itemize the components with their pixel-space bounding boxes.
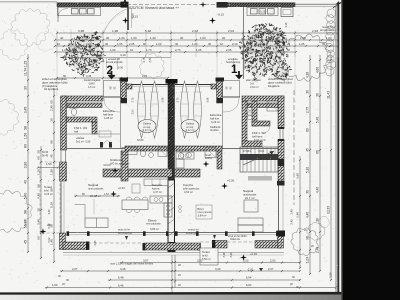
west terrace outline [40, 162, 60, 233]
svg-text:2,93: 2,93 [312, 29, 318, 33]
svg-text:árnyékolásk.: árnyékolásk. [320, 28, 335, 32]
bottom dim row 2 [60, 270, 300, 272]
bottom scan edge thick line [0, 292, 342, 295]
left fixtures [69, 103, 78, 108]
svg-text:4,18: 4,18 [284, 22, 288, 28]
svg-text:30: 30 [175, 42, 179, 46]
svg-text:2,10 m²: 2,10 m² [250, 85, 259, 89]
stair lower step strip [248, 176, 272, 181]
svg-text:1,00: 1,00 [200, 36, 206, 40]
svg-text:4,10: 4,10 [85, 48, 91, 52]
svg-text:60: 60 [37, 156, 41, 160]
svg-text:90: 90 [262, 48, 266, 52]
svg-text:hall: hall [74, 129, 79, 133]
svg-text:98: 98 [24, 210, 28, 214]
post end block [86, 242, 89, 250]
survey star bottom-left [40, 228, 47, 235]
svg-text:nem padozás: nem padozás [88, 187, 104, 191]
svg-text:66 60: 66 60 [42, 151, 49, 154]
svg-text:3,45: 3,45 [265, 29, 271, 33]
svg-text:2,05: 2,05 [129, 42, 135, 46]
svg-text:ellet vagjawt: ellet vagjawt [246, 78, 261, 82]
survey star mid right [203, 161, 210, 168]
interior line left unit [67, 148, 169, 150]
svg-text:2,03: 2,03 [192, 29, 198, 33]
tree top-left small scallop [36, 31, 56, 51]
svg-text:4,40: 4,40 [306, 212, 310, 218]
svg-text:1,50: 1,50 [52, 283, 58, 287]
svg-text:Konyha: Konyha [183, 183, 193, 187]
right bath left wall [242, 101, 247, 146]
entry recess outline left [104, 81, 121, 98]
hedge along right boundary [327, 9, 335, 18]
tree bottom-left [0, 190, 32, 232]
svg-text:3,60: 3,60 [296, 173, 300, 179]
carport left posts [72, 9, 79, 14]
svg-text:30: 30 [50, 118, 54, 122]
svg-text:9,12 m²: 9,12 m² [186, 128, 195, 132]
svg-text:6,94: 6,94 [246, 276, 252, 280]
svg-text:2,75: 2,75 [306, 107, 310, 113]
carport left door swing [58, 9, 68, 19]
svg-text:1,15: 1,15 [24, 61, 28, 68]
right unit bath bottom wall [175, 169, 201, 177]
right sofa group [238, 218, 263, 225]
svg-text:3,84 m²: 3,84 m² [198, 213, 207, 217]
svg-text:45: 45 [24, 240, 28, 244]
walkway to left entry [106, 58, 108, 70]
right unit east wall upper [278, 96, 284, 128]
svg-text:Konyha: Konyha [152, 183, 162, 187]
svg-text:60: 60 [50, 100, 54, 104]
svg-text:1,98: 1,98 [112, 29, 118, 33]
svg-text:3,86 m²: 3,86 m² [150, 227, 159, 231]
party wall lower hollow [168, 180, 175, 248]
dense tree left of entry [68, 39, 101, 72]
svg-text:2,60: 2,60 [142, 74, 148, 78]
left unit west wall upper [61, 96, 67, 150]
right unit entry side wall [217, 80, 223, 103]
svg-text:0-8: 0-8 [250, 81, 254, 85]
svg-text:födkö-líte: födkö-líte [230, 238, 241, 241]
corner tick top-right [333, 0, 344, 8]
svg-text:60: 60 [24, 144, 28, 148]
stair hall top stub right [211, 84, 217, 89]
carport left outline [58, 7, 101, 15]
svg-text:2,75: 2,75 [177, 97, 180, 102]
svg-text:-0,15: -0,15 [217, 13, 224, 17]
svg-text:hall-lane: hall-lane [103, 112, 114, 116]
svg-text:4,28 m²: 4,28 m² [104, 116, 113, 120]
svg-text:5,40: 5,40 [24, 193, 28, 200]
dimension row A [57, 32, 338, 34]
survey star mid left living [110, 191, 117, 198]
driveway arc left [104, 9, 127, 32]
svg-text:4,60: 4,60 [316, 67, 320, 73]
svg-text:4,29 m²: 4,29 m² [211, 120, 220, 124]
svg-text:10,33: 10,33 [327, 206, 331, 214]
east wall mid dark block [278, 159, 285, 166]
survey star mid left kitchen [112, 167, 118, 173]
vertical dim chain left mid [40, 146, 42, 258]
south glazing line both units [67, 232, 279, 234]
svg-text:98: 98 [24, 126, 28, 130]
gate post line down [127, 7, 129, 30]
svg-text:4,37 m²: 4,37 m² [153, 190, 162, 194]
svg-text:2,75: 2,75 [132, 97, 135, 102]
entrance arrow left [108, 71, 116, 80]
bottom dim row 4 [45, 287, 336, 289]
tree top-left large scallop [11, 8, 50, 46]
terrace bottom wall right b [255, 241, 281, 249]
svg-text:1,03: 1,03 [326, 36, 332, 40]
svg-text:2,03: 2,03 [243, 258, 249, 262]
vertical chain right 2 [319, 55, 321, 271]
svg-text:Galéria: Galéria [143, 122, 152, 126]
svg-text:40: 40 [60, 36, 64, 40]
neighbour plot line top-left [0, 1, 57, 3]
stair arrow [243, 151, 274, 165]
bottom dim row 1 [120, 262, 300, 264]
svg-text:30: 30 [208, 42, 212, 46]
right dining table [244, 200, 258, 212]
gate arrow at street [122, 0, 129, 6]
svg-text:1,50: 1,50 [93, 36, 99, 40]
party wall top cap [166, 79, 178, 84]
left kitchen upper counter row [144, 179, 168, 186]
svg-text:1,50: 1,50 [46, 162, 52, 166]
left bath fixtures [122, 148, 137, 155]
svg-text:2,07: 2,07 [72, 267, 78, 271]
arrow line into site [60, 57, 171, 59]
survey star top B [209, 17, 216, 24]
survey star right living [221, 183, 228, 190]
svg-text:3,46: 3,46 [120, 267, 126, 271]
svg-text:3,48: 3,48 [296, 212, 300, 218]
svg-text:30: 30 [37, 150, 41, 154]
svg-text:60: 60 [37, 236, 41, 240]
svg-text:=3,10: =3,10 [258, 151, 265, 153]
right bath inner wall horizontal [252, 121, 270, 126]
right unit WC fixtures [247, 104, 252, 111]
svg-text:4,52 m²: 4,52 m² [184, 190, 193, 194]
svg-text:4,40: 4,40 [47, 209, 51, 215]
corner black cap top [277, 231, 286, 237]
svg-text:10: 10 [220, 42, 224, 46]
svg-text:98 40: 98 40 [42, 155, 49, 158]
svg-text:3,48: 3,48 [222, 252, 226, 258]
dense tree right unit front [244, 28, 285, 69]
svg-text:-1840: -1840 [88, 81, 95, 85]
party wall between units [168, 83, 175, 180]
right terrace label box [200, 248, 218, 265]
fence dark post block [121, 2, 129, 8]
level triangle [259, 268, 263, 271]
right black scanner strip [342, 0, 400, 300]
survey star top-right corner [336, 1, 342, 7]
right bath lower wall [242, 141, 262, 147]
entry door swing right [223, 98, 239, 112]
svg-text:kő-kertyēja: kő-kertyēja [186, 231, 199, 235]
stair label oval left [138, 120, 156, 133]
svg-text:jobb apartman: jobb apartman [182, 186, 200, 190]
svg-text:2,50: 2,50 [132, 109, 135, 114]
svg-text:17x18,4: 17x18,4 [243, 151, 252, 153]
entry wall black cap [120, 78, 129, 82]
svg-text:1,00: 1,00 [62, 48, 68, 52]
right unit top wall [242, 96, 284, 101]
svg-text:30: 30 [105, 42, 109, 46]
svg-text:30: 30 [306, 90, 310, 94]
svg-text:9,12 m²: 9,12 m² [143, 128, 152, 132]
svg-text:11,43: 11,43 [327, 91, 331, 99]
svg-text:+0,63: +0,63 [118, 186, 125, 190]
svg-text:Terasz: Terasz [202, 250, 210, 254]
west wall window section [60, 150, 62, 162]
svg-text:Nappali: Nappali [243, 189, 254, 193]
svg-text:1,50: 1,50 [50, 169, 54, 175]
svg-text:+0,02: +0,02 [250, 252, 257, 256]
vertical chain right inner [299, 156, 301, 268]
svg-text:max 1,53 m magas dél hirára ke: max 1,53 m magas dél hirára kerítés [110, 261, 154, 265]
dimension row B [55, 39, 338, 41]
right unit inner top wall bar [247, 103, 278, 108]
terrace bottom wall right a [214, 241, 227, 249]
carport right outline [247, 7, 278, 15]
plot boundary dashed between fence segments [127, 4, 217, 6]
svg-text:2,05: 2,05 [248, 36, 254, 40]
dim row above building [57, 77, 168, 79]
svg-text:köben a helyiségben: köben a helyiségben [42, 77, 67, 81]
svg-text:2,60: 2,60 [86, 42, 92, 46]
svg-text:1,05: 1,05 [196, 48, 202, 52]
east wall end cap [277, 181, 285, 186]
left unit inner top wall bar [67, 103, 102, 108]
svg-text:1,50: 1,50 [131, 36, 137, 40]
svg-text:2,05: 2,05 [300, 36, 306, 40]
svg-text:fürdőszoba: fürdőszoba [110, 158, 124, 162]
east glazing lower [277, 186, 279, 233]
svg-text:5,40: 5,40 [316, 117, 320, 123]
svg-text:1,73: 1,73 [146, 48, 152, 52]
left unit bath left wall [121, 151, 128, 181]
stair lens curves left unit [138, 81, 146, 138]
svg-text:40: 40 [24, 180, 28, 184]
svg-text:16,33: 16,33 [24, 220, 28, 228]
svg-text:1,52: 1,52 [104, 192, 110, 196]
svg-text:1,00: 1,00 [110, 48, 116, 52]
survey star top A [200, 1, 206, 7]
svg-text:2,73: 2,73 [175, 48, 181, 52]
svg-text:30: 30 [306, 190, 310, 194]
entry wall bottom black blob [121, 98, 127, 103]
left unit porch inner wall L vertical [92, 122, 97, 134]
dashed garden line bottom [88, 242, 145, 244]
right unit bath right wall [217, 151, 222, 169]
svg-text:30: 30 [222, 36, 226, 40]
right bath inner wall vertical [252, 101, 257, 126]
carport right posts [251, 9, 258, 14]
svg-text:2,48: 2,48 [316, 247, 320, 253]
svg-text:5x1 m² -2,50: 5x1 m² -2,50 [76, 139, 91, 143]
svg-text:2,03: 2,03 [270, 258, 276, 262]
stair hall top line right [175, 84, 217, 86]
left kitchen counter [150, 196, 172, 203]
svg-text:63,89: 63,89 [137, 138, 144, 142]
level mark bottom [240, 254, 247, 261]
svg-text:30: 30 [316, 93, 320, 97]
bottom-right corner wall vertical [278, 236, 284, 248]
svg-text:Galéria: Galéria [186, 122, 195, 126]
svg-text:5,01 m² b: 5,01 m² b [254, 138, 266, 142]
vertical chain right 1 [309, 55, 311, 274]
svg-text:fürdőkö: fürdőkö [210, 128, 219, 132]
entrance arrow right [235, 71, 243, 80]
svg-text:10: 10 [57, 42, 61, 46]
svg-text:4,18: 4,18 [131, 13, 135, 19]
tree bottom-right [291, 228, 318, 256]
svg-text:02 ápolásra: 02 ápolásra [44, 87, 59, 91]
left unit bath top wall [125, 146, 168, 151]
stair hall top stub left [127, 84, 133, 89]
right unit bath top wall [175, 146, 223, 151]
glazing jambs [67, 231, 70, 236]
svg-text:kádba: kádba [205, 156, 213, 160]
top dim block vertical connectors [56, 31, 58, 57]
svg-text:2,10: 2,10 [232, 42, 238, 46]
left unit top porch wall [63, 96, 104, 101]
svg-text:3,40: 3,40 [215, 267, 221, 271]
right hall door arc [262, 125, 270, 133]
left sofa [85, 218, 108, 228]
shed right outline [281, 8, 293, 17]
svg-text:2,03: 2,03 [228, 29, 234, 33]
svg-text:1,50: 1,50 [24, 133, 28, 140]
vertical dim chain at west wall [53, 88, 55, 262]
svg-text:2,05: 2,05 [226, 48, 232, 52]
street fence wall right segment [217, 3, 295, 7]
street fence wall left segment [57, 3, 127, 7]
svg-text:gipsz csokkos külső: gipsz csokkos külső [268, 80, 293, 84]
light tree over stairs [139, 53, 164, 79]
svg-text:SZÜ/TCM Kismező utca hasza ++: SZÜ/TCM Kismező utca hasza ++ [129, 6, 179, 10]
left unit interior door row [67, 133, 121, 135]
svg-text:60: 60 [306, 128, 310, 132]
right shower corner [267, 101, 278, 111]
svg-text:1,30: 1,30 [268, 36, 274, 40]
svg-text:60: 60 [316, 150, 320, 154]
svg-text:40 kő-kertye: 40 kő-kertye [118, 231, 133, 235]
svg-text:-0,30: -0,30 [117, 66, 124, 70]
svg-text:kamra: kamra [152, 186, 160, 190]
svg-text:1,00: 1,00 [119, 36, 125, 40]
party wall terrace end block [168, 242, 176, 252]
left unit entry side wall [121, 80, 127, 103]
svg-text:45: 45 [306, 148, 310, 152]
dimension row D [55, 51, 296, 53]
vertical dim chain far left [27, 54, 29, 252]
svg-text:5,02: 5,02 [47, 237, 51, 243]
right unit stair treads [240, 147, 278, 172]
terrace wall end posts [143, 243, 146, 250]
dashed property line inner right [293, 90, 295, 205]
tree top-left lower scallop [0, 29, 28, 60]
svg-text:30: 30 [180, 36, 184, 40]
svg-text:6,48: 6,48 [118, 276, 124, 280]
right plot boundary double line [335, 4, 337, 292]
svg-text:30: 30 [316, 218, 320, 222]
svg-text:Előszoba: Előszoba [210, 113, 222, 117]
svg-text:2,10: 2,10 [284, 37, 288, 43]
svg-text:6,48: 6,48 [47, 223, 51, 229]
svg-text:hall-line: hall-line [210, 116, 220, 120]
svg-text:WC-be apartman: WC-be apartman [110, 161, 130, 165]
east wall window jambs [278, 127, 284, 129]
stair hall top line [127, 84, 169, 86]
svg-text:2,86: 2,86 [260, 42, 266, 46]
boundary double line top right [295, 3, 339, 5]
svg-text:2,07: 2,07 [268, 267, 274, 271]
plot line between units front [243, 7, 245, 79]
svg-text:3,98: 3,98 [78, 29, 84, 33]
svg-text:30: 30 [24, 86, 28, 90]
vertical chain right 3 [330, 55, 332, 280]
svg-text:1: 1 [231, 63, 238, 76]
tree left-edge mid [0, 99, 19, 135]
bottom-left corner wall horizontal [63, 242, 88, 250]
extension lines top [56, 30, 58, 96]
right bath fixtures [178, 153, 183, 160]
west wall pillar [60, 162, 67, 181]
stair lens curves right unit [181, 81, 189, 138]
entry door swing left [104, 98, 120, 112]
svg-text:98: 98 [306, 236, 310, 240]
svg-text:ta-kő: ta-kő [202, 253, 208, 257]
svg-text:1,30: 1,30 [150, 36, 156, 40]
left unit bath bottom wall [103, 169, 172, 177]
scallop tree right [280, 34, 331, 81]
svg-text:4,18: 4,18 [306, 72, 310, 78]
survey star on gate line [122, 17, 129, 24]
party wall dim line continues below [171, 255, 173, 295]
svg-text:98: 98 [50, 140, 54, 144]
right kitchen counter [176, 152, 194, 159]
svg-text:35: 35 [322, 42, 326, 46]
west glazing lower [60, 181, 62, 233]
svg-text:1,05: 1,05 [117, 42, 123, 46]
svg-text:1,50: 1,50 [329, 272, 333, 278]
terrace bottom wall centre [145, 243, 200, 250]
svg-text:3,45: 3,45 [24, 107, 28, 114]
svg-text:3,90: 3,90 [24, 162, 28, 169]
svg-text:m0,63: m0,63 [103, 163, 111, 167]
svg-text:1,50: 1,50 [95, 53, 101, 57]
bottom scan gray band [0, 295, 342, 300]
svg-text:2,45: 2,45 [93, 240, 97, 246]
svg-text:45: 45 [50, 154, 54, 158]
walkway to right entry [233, 58, 235, 70]
svg-text:3,23 m²: 3,23 m² [44, 192, 53, 196]
bottom-left corner wall vertical [60, 233, 66, 250]
dimension row C [55, 45, 338, 47]
svg-text:5,96: 5,96 [207, 97, 210, 102]
interior door jambs left unit [100, 142, 103, 148]
svg-text:4,5 m²: 4,5 m² [88, 85, 95, 89]
stair label oval right [181, 120, 199, 133]
svg-text:5,50 m²: 5,50 m² [202, 257, 211, 261]
svg-text:nem padozás: nem padozás [146, 223, 161, 226]
svg-text:30: 30 [248, 42, 252, 46]
